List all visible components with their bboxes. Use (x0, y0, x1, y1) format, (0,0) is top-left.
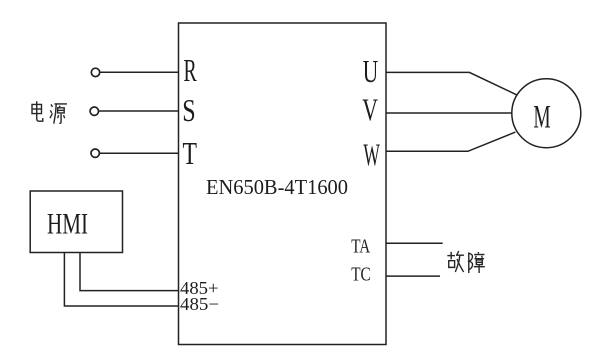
wire T (100, 152, 179, 154)
wire S (99, 110, 179, 112)
terminal circle S (90, 107, 98, 115)
svg-text:EN650B-4T1600: EN650B-4T1600 (206, 175, 348, 199)
label 障 of 故障 (fault) (469, 252, 485, 273)
svg-text:485−: 485− (180, 294, 219, 314)
svg-text:W: W (363, 136, 380, 172)
motor circle M (512, 79, 581, 148)
svg-text:R: R (184, 52, 198, 88)
terminal circle R (91, 68, 99, 76)
svg-text:M: M (533, 99, 550, 135)
label 故 of 故障 (fault) (447, 251, 464, 272)
wire V to motor (386, 112, 512, 114)
svg-text:U: U (363, 53, 379, 89)
svg-text:V: V (362, 91, 378, 127)
wire 485+ from HMI (80, 253, 179, 291)
svg-text:TA: TA (351, 235, 370, 257)
svg-text:TC: TC (351, 264, 371, 286)
wire U to motor (386, 72, 517, 95)
svg-text:S: S (182, 92, 195, 128)
wire W to motor (386, 132, 515, 151)
inverter box EN650B-4T1600 (179, 23, 387, 345)
label 源 of 电源 (power) (50, 104, 67, 124)
wire R (100, 71, 179, 73)
wire TA (386, 242, 443, 244)
svg-text:T: T (183, 135, 198, 171)
HMI box (30, 191, 122, 253)
wire 485- from HMI (64, 253, 178, 307)
label 电 of 电源 (power) (32, 101, 43, 121)
terminal circle T (91, 149, 99, 157)
wire TC (386, 275, 440, 277)
svg-text:HMI: HMI (47, 208, 88, 241)
